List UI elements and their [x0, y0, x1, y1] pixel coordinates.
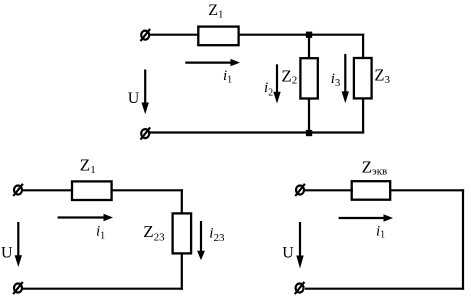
current arrow i2 — [273, 64, 280, 103]
terminal T6 bottom-left of third circuit — [295, 282, 305, 294]
svg-text:U: U — [282, 244, 294, 261]
bottom wire of third circuit — [305, 288, 464, 290]
svg-text:U: U — [1, 245, 13, 262]
bottom wire of second circuit — [23, 288, 183, 290]
terminal T5 top-left of third circuit — [295, 184, 305, 196]
resistor Z3 — [354, 58, 372, 98]
resistor Zekv — [352, 181, 391, 200]
wire corner down to Z23 — [181, 189, 183, 213]
wire Z2 to bottom wire — [308, 99, 310, 134]
voltage arrow U (third circuit) — [296, 222, 303, 269]
resistor Z1 (second circuit) — [72, 181, 112, 200]
resistor Z23 — [173, 213, 192, 253]
svg-text:U: U — [128, 90, 140, 107]
wire Z3 to bottom wire — [362, 98, 364, 133]
wire T3 to Z1 (second circuit) — [23, 189, 73, 191]
wire T5 to Zekv — [305, 189, 353, 191]
wire Z23 to bottom wire (second circuit) — [181, 253, 183, 289]
current arrow i1 (second circuit) — [58, 214, 113, 221]
wire junction down to Z2 — [308, 35, 310, 59]
resistor Z2 — [300, 58, 317, 98]
node junction top — [306, 32, 312, 38]
current arrow i1 (third circuit) — [339, 214, 393, 221]
resistor Z1 (top circuit) — [198, 27, 238, 46]
current arrow i1 (top circuit) — [185, 59, 240, 66]
terminal T2 bottom-left of first circuit — [141, 127, 151, 139]
terminal T4 bottom-left of second circuit — [13, 282, 23, 294]
wire from T1 to Z1 — [150, 34, 199, 36]
terminal T3 top-left of second circuit — [13, 184, 23, 196]
bottom wire of top circuit — [150, 131, 364, 133]
terminal T1 top-left of first circuit — [141, 29, 151, 41]
wire Zekv to right corner (third circuit) — [390, 189, 464, 191]
right vertical wire (third circuit) — [462, 189, 464, 290]
current arrow i23 — [197, 221, 205, 260]
voltage arrow U (top circuit) — [142, 70, 149, 115]
current arrow i3 — [342, 54, 349, 103]
wire corner down to Z3 — [362, 34, 364, 58]
wire Z1 to right corner (second circuit) — [112, 189, 183, 191]
node junction bottom — [306, 130, 312, 136]
voltage arrow U (second circuit) — [15, 222, 22, 267]
wire from Z1 to top-right corner — [239, 34, 365, 36]
